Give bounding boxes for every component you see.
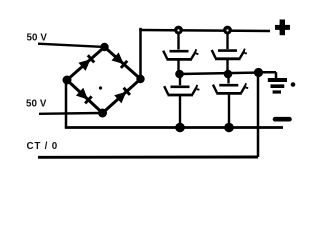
wire plus riser from bridge right node <box>139 28 142 77</box>
wire bridge edge left-top <box>67 47 105 80</box>
capacitor C3 <box>212 49 247 59</box>
stray ink dot inside bridge <box>99 86 102 89</box>
node bridge right (plus) <box>136 75 144 83</box>
junction C3/C4 midpoint <box>224 70 233 79</box>
junction C1 to plus rail <box>174 26 183 35</box>
terminal minus symbol <box>275 117 290 122</box>
wire to ground symbol <box>259 71 277 74</box>
wire minus rail <box>65 126 283 129</box>
wire C1 top lead <box>177 30 179 50</box>
svg-text:50 V: 50 V <box>27 32 48 43</box>
wire C2 bottom lead <box>179 95 181 127</box>
wire C4 bottom lead <box>228 94 230 128</box>
ground symbol <box>268 80 287 92</box>
wire capacitor midpoint rail <box>180 73 259 75</box>
wire C1 bottom lead <box>177 61 179 75</box>
wire bridge edge bottom-right <box>103 79 141 113</box>
wire plus rail <box>139 30 270 31</box>
node bridge top (AC input) <box>100 43 108 51</box>
wire C4 top lead <box>227 74 229 83</box>
wire CT/0 line <box>38 156 258 159</box>
terminal plus symbol <box>275 20 290 36</box>
junction C4 to minus rail <box>224 123 234 133</box>
node bridge bottom (AC input) <box>98 109 107 118</box>
wire upper 50V input to bridge top node <box>38 44 101 47</box>
junction C3 to plus rail <box>223 26 232 35</box>
wire C3 bottom lead <box>226 60 228 74</box>
wire bridge edge top-right <box>105 47 141 79</box>
junction C1/C2 midpoint <box>175 70 184 79</box>
svg-text:CT / 0: CT / 0 <box>27 141 58 152</box>
diode D4 <box>114 87 130 103</box>
wire C2 top lead <box>179 74 181 85</box>
junction midpoint to ground and CT <box>254 68 263 77</box>
diode D1 <box>78 55 94 71</box>
capacitor C4 <box>213 83 248 93</box>
capacitor C2 <box>164 85 199 95</box>
svg-text:50 V: 50 V <box>26 98 47 109</box>
wire ground junction down to CT line <box>257 76 260 157</box>
diode D2 <box>112 52 128 68</box>
node bridge left (minus) <box>63 76 72 85</box>
wire bridge edge left-bottom <box>67 80 103 113</box>
diode D3 <box>76 88 92 104</box>
capacitor C1 <box>163 49 198 59</box>
wire C3 top lead <box>226 30 228 49</box>
wire lower 50V input to bridge bottom node <box>39 112 100 115</box>
wire minus drop from bridge left node <box>65 82 68 128</box>
wire ground symbol stem <box>275 72 278 78</box>
stray ink dot right of ground <box>291 82 296 87</box>
junction C2 to minus rail <box>175 123 185 133</box>
